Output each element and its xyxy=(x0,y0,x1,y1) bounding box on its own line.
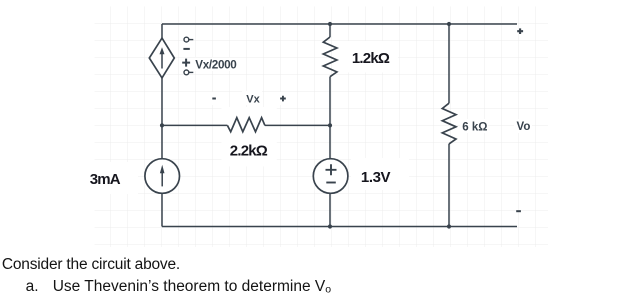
resistor R 2.2kΩ (horizontal zigzag) xyxy=(227,118,265,132)
arrow inside dependent source xyxy=(160,47,165,68)
svg-text:1.2kΩ: 1.2kΩ xyxy=(352,50,390,67)
svg-text:Vx: Vx xyxy=(246,93,260,105)
label 3mA xyxy=(90,171,121,188)
label 1.3V xyxy=(361,169,391,186)
arrow inside current source xyxy=(160,165,165,187)
junction: middle branch / middle wire xyxy=(328,123,332,127)
svg-text:Consider the circuit above.: Consider the circuit above. xyxy=(2,256,180,273)
svg-text:3mA: 3mA xyxy=(90,171,121,188)
label Vx/2000 xyxy=(195,59,237,72)
junction: right branch / bottom net xyxy=(447,224,451,228)
label Vo xyxy=(517,121,531,133)
label 6 kΩ xyxy=(462,122,487,134)
minus sign inside voltage source xyxy=(326,182,336,184)
label 1.2kΩ xyxy=(352,50,390,67)
label + (Vx polarity plus) xyxy=(280,96,286,102)
svg-text:Vx/2000: Vx/2000 xyxy=(195,59,237,72)
dependent current source B1 (diamond, Vx/2000) xyxy=(149,38,174,78)
junction: left branch / middle wire xyxy=(160,123,164,127)
control terminal symbol: top circle pin xyxy=(184,37,193,42)
resistor R 6kΩ (vertical zigzag) xyxy=(442,103,456,144)
wire: middle branch top (top net to 1.2k) xyxy=(329,24,331,37)
wire: top net from dependent source to output terminal + xyxy=(162,23,517,25)
wire: right branch bottom (6k to bottom net) xyxy=(448,144,450,227)
control terminal symbol: bottom circle pin xyxy=(184,70,193,75)
junction: middle branch / top net xyxy=(328,22,332,26)
svg-text:a.: a. xyxy=(26,278,39,295)
svg-text:6 kΩ: 6 kΩ xyxy=(462,122,487,134)
svg-text:1.3V: 1.3V xyxy=(361,169,391,186)
junction: right branch / top net xyxy=(447,22,451,26)
voltage source V1 (1.3V circle) xyxy=(313,159,348,194)
wire: middle branch (1.2k to voltage source) xyxy=(329,77,331,159)
plus sign inside voltage source xyxy=(326,164,337,175)
wire: left branch top (top net down to dependent source) xyxy=(161,24,163,38)
svg-text:Vo: Vo xyxy=(517,121,531,133)
svg-text:2.2kΩ: 2.2kΩ xyxy=(230,143,268,160)
wire: middle horizontal (left branch to 2.2k resistor) xyxy=(162,124,227,126)
control terminal plus sign xyxy=(182,59,190,67)
output terminal plus sign (top right) xyxy=(517,28,523,34)
label background patches (white boxes over grid) xyxy=(84,41,532,194)
resistor R 1.2kΩ (vertical zigzag) xyxy=(323,37,337,77)
control terminal minus sign xyxy=(183,48,189,50)
wire: right branch top (top net to 6k) xyxy=(448,24,450,103)
wire: left branch bottom (current source to bottom net) xyxy=(161,194,163,227)
label - (Vx polarity minus) xyxy=(212,98,216,100)
label Vx xyxy=(246,93,260,105)
wire: middle branch bottom (voltage source to bottom net) xyxy=(329,194,331,227)
svg-text:Use Thevenin’s theorem to dete: Use Thevenin’s theorem to determine Vo xyxy=(53,278,332,296)
junction: middle branch / bottom net xyxy=(328,224,332,228)
wire: bottom net xyxy=(162,226,517,228)
caption line 2 xyxy=(26,278,332,296)
current source I1 (3mA circle) xyxy=(145,159,180,194)
output terminal minus sign (bottom right) xyxy=(516,210,521,212)
wire: middle horizontal (2.2k resistor to middle branch) xyxy=(265,124,330,126)
caption line 1 xyxy=(2,256,180,273)
label 2.2kΩ xyxy=(230,143,268,160)
wire: left branch middle (diamond to current source) xyxy=(161,78,163,158)
